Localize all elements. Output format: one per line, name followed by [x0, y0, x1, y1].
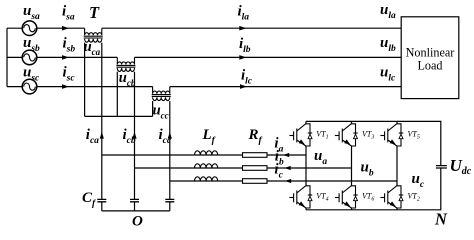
- svg-text:ucc: ucc: [153, 102, 169, 120]
- svg-text:VT6: VT6: [362, 192, 374, 203]
- svg-text:ucb: ucb: [119, 70, 136, 88]
- svg-text:ilc: ilc: [241, 68, 253, 87]
- svg-text:VT1: VT1: [316, 130, 328, 141]
- svg-text:Udc: Udc: [450, 156, 472, 177]
- svg-text:ulb: ulb: [380, 35, 396, 54]
- svg-text:ula: ula: [380, 2, 396, 21]
- svg-text:uc: uc: [412, 171, 425, 190]
- svg-text:Load: Load: [417, 58, 442, 72]
- svg-text:Lf: Lf: [202, 127, 216, 146]
- svg-text:N: N: [434, 210, 448, 229]
- svg-text:VT5: VT5: [408, 130, 420, 141]
- svg-text:isc: isc: [63, 65, 76, 84]
- svg-text:isa: isa: [62, 4, 75, 23]
- svg-text:ila: ila: [238, 4, 250, 23]
- svg-text:VT4: VT4: [316, 192, 328, 203]
- svg-text:ica: ica: [86, 127, 99, 146]
- svg-text:ulc: ulc: [380, 64, 396, 83]
- svg-text:T: T: [89, 3, 100, 22]
- svg-text:Rf: Rf: [248, 127, 263, 146]
- svg-text:ua: ua: [314, 148, 327, 167]
- svg-text:usa: usa: [23, 3, 40, 22]
- svg-text:Cf: Cf: [82, 190, 96, 209]
- svg-text:ub: ub: [361, 160, 374, 179]
- svg-text:O: O: [132, 213, 143, 229]
- svg-text:VT3: VT3: [362, 130, 374, 141]
- svg-text:isb: isb: [63, 36, 76, 55]
- svg-text:VT2: VT2: [408, 192, 420, 203]
- svg-text:icb: icb: [123, 127, 136, 146]
- svg-text:ilb: ilb: [239, 36, 251, 55]
